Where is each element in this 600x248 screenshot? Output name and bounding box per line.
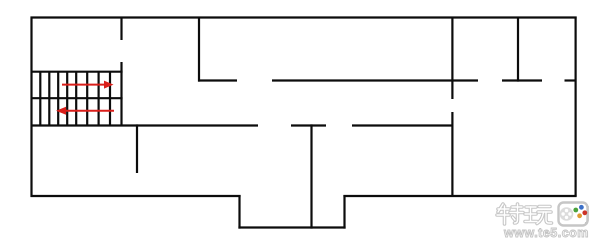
wire: doorway stub above stairs xyxy=(120,17,122,41)
wire: outer top wall xyxy=(31,16,577,18)
wire: outer right wall xyxy=(574,17,576,197)
watermark: te5.com logo (bottom right) xyxy=(497,203,589,241)
stairs: tread 6 xyxy=(86,72,88,125)
wire: horizontal wall y=80.5 segment from x=502 to 540 xyxy=(502,79,542,81)
watermark gamepad d-pad disc xyxy=(560,207,574,221)
wire: bottom wall right section xyxy=(343,195,576,197)
wire: short interior vertical wall x=137 xyxy=(136,124,138,173)
wire: interior vertical wall x=453 lower part xyxy=(451,112,453,197)
wire: bottom wall left section xyxy=(31,195,241,197)
watermark gamepad icon frame xyxy=(559,203,588,226)
red arrow pointing left (lower stair run) xyxy=(56,107,114,115)
wire: horizontal wall y=125.5 from left wall to x=258 xyxy=(31,124,259,126)
watermark character 特 (hand-drawn strokes) xyxy=(497,204,523,224)
svg-text:www.te5.com: www.te5.com xyxy=(503,226,589,240)
watermark button red xyxy=(582,210,587,215)
wire: interior vertical wall x=453 upper part xyxy=(451,17,453,100)
red arrow pointing right (upper stair run) xyxy=(62,81,114,89)
stairs: middle landing line xyxy=(31,97,123,99)
stairs: tread 7 xyxy=(97,72,99,125)
wire: interior vertical wall x=518 (top-right rooms) xyxy=(517,17,519,82)
stairs: tread 1 xyxy=(39,72,41,125)
stairs: tread 8 xyxy=(109,72,111,125)
wire: bottom bump lower horizontal xyxy=(238,226,345,228)
stairs: tread 5 xyxy=(75,72,77,125)
stairs: tread 2 xyxy=(48,72,50,125)
wire: interior vertical wall x=199 (top-left room) xyxy=(198,17,200,82)
watermark gamepad icon hook of 网 xyxy=(585,206,588,223)
wire: bottom bump left vertical xyxy=(238,195,240,229)
watermark character 玩 (hand-drawn strokes) xyxy=(525,207,552,224)
wire: long horizontal wall y=80.5 segment from x=272 to 478 xyxy=(272,79,478,81)
wire: outer left wall xyxy=(30,17,32,198)
wire: stairwell right wall xyxy=(120,62,122,126)
wire: bottom bump right vertical xyxy=(343,195,345,229)
stairs: top edge xyxy=(31,71,123,73)
wire: horizontal wall y=125.5 segment x=352 to 452 xyxy=(352,124,454,126)
wire: horizontal wall y=80.5 segment from x=199 to 237 xyxy=(198,79,237,81)
wire: long interior vertical wall x=311.5 xyxy=(310,124,312,228)
wire: horizontal wall y=125.5 segment x=291 to 326 xyxy=(291,124,326,126)
stairs: tread 3 xyxy=(57,72,59,125)
watermark button blue xyxy=(579,205,584,210)
wire: horizontal wall y=80.5 stub at right wall xyxy=(565,79,577,81)
watermark button green xyxy=(573,208,578,213)
watermark button orange xyxy=(577,213,582,218)
stairs: tread 4 xyxy=(66,72,68,125)
